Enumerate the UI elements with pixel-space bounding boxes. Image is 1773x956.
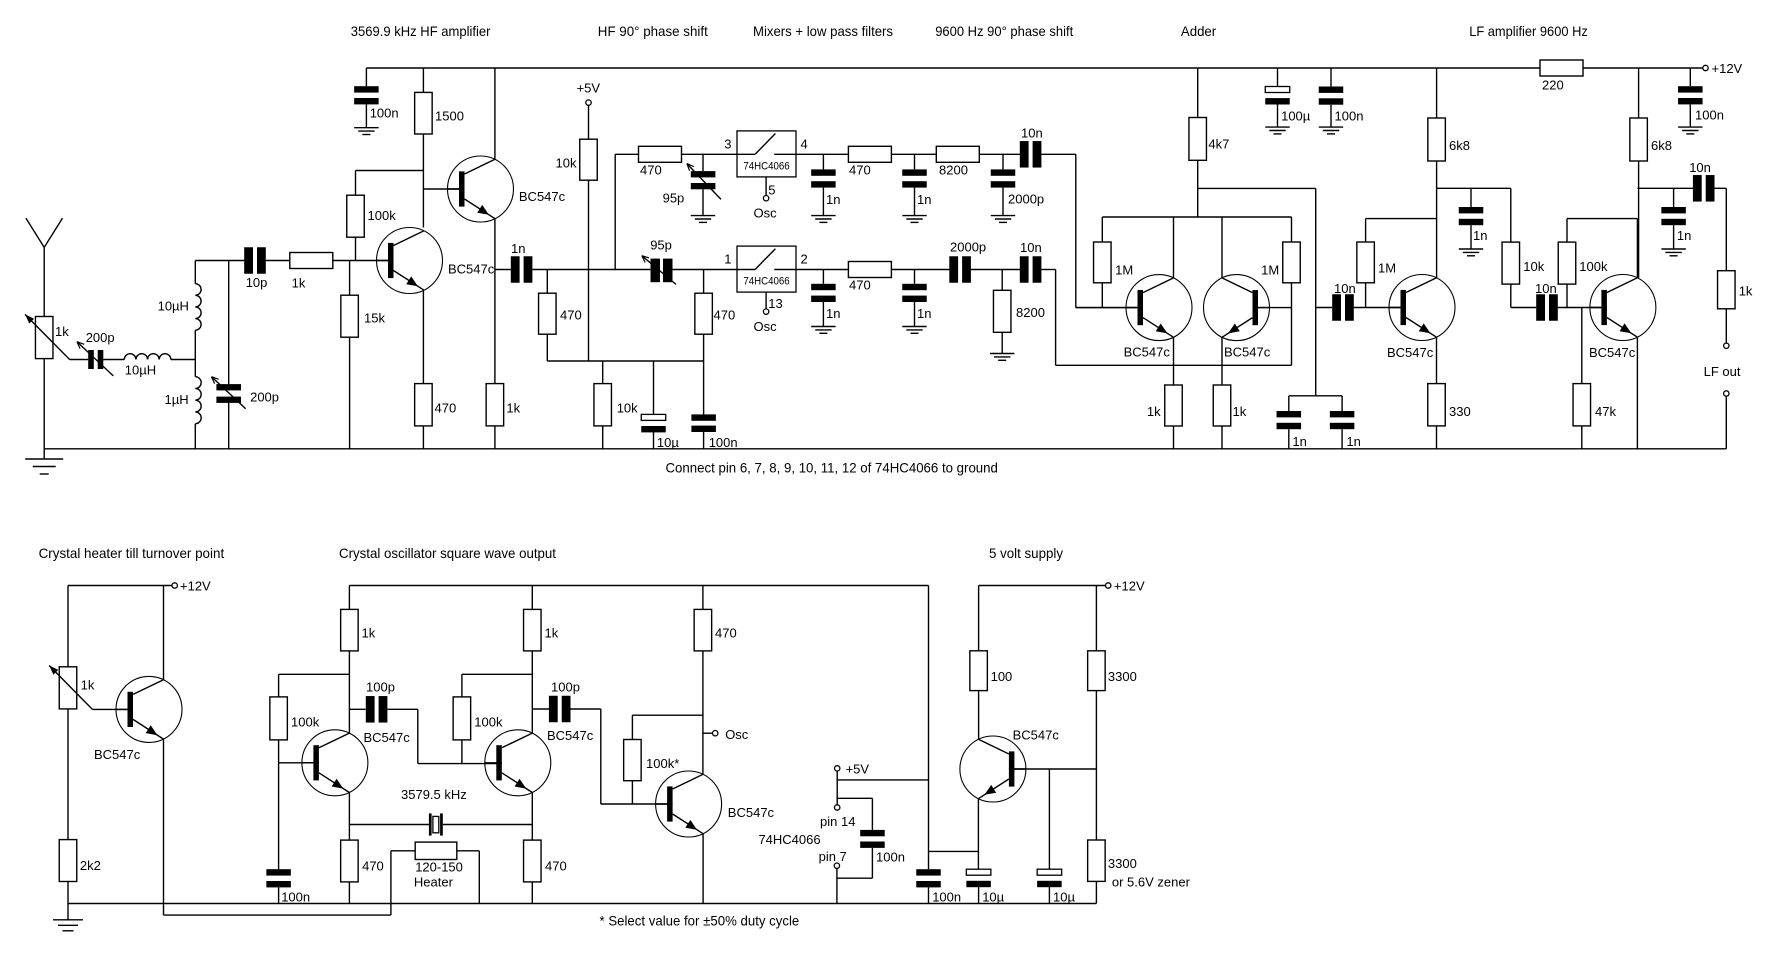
svg-text:1M: 1M	[1261, 263, 1279, 278]
svg-text:Connect pin 6, 7, 8, 9, 10, 11: Connect pin 6, 7, 8, 9, 10, 11, 12 of 74…	[666, 459, 998, 475]
svg-text:10µH: 10µH	[158, 298, 189, 313]
svg-text:1M: 1M	[1115, 263, 1133, 278]
svg-text:100k: 100k	[368, 208, 397, 223]
svg-text:6k8: 6k8	[1449, 138, 1470, 153]
svg-text:Osc: Osc	[754, 319, 778, 334]
svg-text:3300: 3300	[1108, 669, 1137, 684]
svg-text:Osc: Osc	[754, 205, 778, 220]
svg-text:Osc: Osc	[725, 727, 749, 742]
svg-text:Heater: Heater	[414, 875, 454, 890]
svg-text:470: 470	[714, 308, 736, 323]
svg-text:10n: 10n	[1020, 240, 1042, 255]
svg-text:3569.9 kHz HF amplifier: 3569.9 kHz HF amplifier	[351, 23, 491, 39]
svg-text:1k: 1k	[1233, 404, 1247, 419]
svg-text:470: 470	[435, 401, 457, 416]
svg-text:10k: 10k	[617, 401, 638, 416]
svg-text:1n: 1n	[826, 192, 840, 207]
svg-text:1n: 1n	[826, 306, 840, 321]
svg-text:BC547c: BC547c	[448, 262, 495, 277]
svg-text:10µ: 10µ	[982, 890, 1004, 905]
svg-text:220: 220	[1542, 78, 1564, 93]
svg-text:BC547c: BC547c	[1387, 345, 1434, 360]
svg-text:470: 470	[640, 163, 662, 178]
svg-text:100p: 100p	[551, 680, 580, 695]
svg-text:LF out: LF out	[1704, 364, 1741, 379]
svg-text:1µH: 1µH	[165, 392, 189, 407]
svg-text:330: 330	[1449, 404, 1471, 419]
svg-text:1k: 1k	[292, 276, 306, 291]
svg-text:1n: 1n	[1292, 434, 1306, 449]
svg-text:4k7: 4k7	[1208, 137, 1229, 152]
svg-text:pin 14: pin 14	[820, 814, 855, 829]
svg-text:200p: 200p	[86, 330, 115, 345]
svg-text:1k: 1k	[55, 324, 69, 339]
svg-text:100n: 100n	[1335, 109, 1364, 124]
svg-text:1500: 1500	[435, 109, 464, 124]
svg-text:1k: 1k	[362, 626, 376, 641]
svg-text:BC547c: BC547c	[364, 730, 411, 745]
svg-text:+5V: +5V	[577, 81, 601, 96]
svg-text:2000p: 2000p	[950, 240, 986, 255]
svg-text:1n: 1n	[917, 192, 931, 207]
svg-text:BC547c: BC547c	[1224, 345, 1271, 360]
svg-text:+12V: +12V	[1712, 61, 1743, 76]
svg-text:74HC4066: 74HC4066	[743, 161, 789, 173]
svg-text:1: 1	[724, 252, 731, 267]
svg-text:15k: 15k	[364, 311, 385, 326]
svg-text:470: 470	[849, 278, 871, 293]
svg-text:10p: 10p	[246, 275, 268, 290]
svg-text:100n: 100n	[876, 850, 905, 865]
svg-text:100µ: 100µ	[1281, 109, 1311, 124]
svg-text:1n: 1n	[1473, 228, 1487, 243]
svg-text:100n: 100n	[709, 435, 738, 450]
svg-text:1n: 1n	[1677, 228, 1691, 243]
svg-text:Adder: Adder	[1181, 23, 1217, 39]
svg-text:4: 4	[801, 137, 808, 152]
svg-text:10µ: 10µ	[1053, 890, 1075, 905]
svg-text:100p: 100p	[366, 680, 395, 695]
svg-text:470: 470	[715, 626, 737, 641]
svg-text:10µ: 10µ	[657, 435, 679, 450]
svg-text:95p: 95p	[650, 238, 672, 253]
svg-text:470: 470	[545, 859, 567, 874]
svg-text:Crystal oscillator square wave: Crystal oscillator square wave output	[339, 545, 556, 561]
svg-text:1n: 1n	[511, 241, 525, 256]
svg-text:10n: 10n	[1334, 281, 1356, 296]
svg-text:BC547c: BC547c	[1013, 728, 1060, 743]
svg-text:95p: 95p	[663, 190, 685, 205]
svg-text:470: 470	[849, 163, 871, 178]
svg-text:3579.5 kHz: 3579.5 kHz	[401, 787, 467, 802]
svg-text:+12V: +12V	[180, 579, 211, 594]
svg-text:10n: 10n	[1535, 281, 1557, 296]
svg-text:100k: 100k	[474, 715, 503, 730]
svg-text:100: 100	[991, 669, 1013, 684]
svg-text:470: 470	[362, 859, 384, 874]
svg-text:8200: 8200	[1016, 305, 1045, 320]
svg-text:Mixers + low pass filters: Mixers + low pass filters	[753, 23, 893, 39]
svg-text:47k: 47k	[1595, 404, 1616, 419]
svg-text:10µH: 10µH	[125, 363, 156, 378]
svg-text:BC547c: BC547c	[728, 805, 775, 820]
svg-text:BC547c: BC547c	[519, 189, 566, 204]
svg-text:BC547c: BC547c	[1589, 345, 1636, 360]
svg-text:pin 7: pin 7	[819, 849, 847, 864]
svg-text:1M: 1M	[1378, 261, 1396, 276]
svg-text:10k: 10k	[1523, 259, 1544, 274]
svg-text:8200: 8200	[939, 163, 968, 178]
svg-text:BC547c: BC547c	[94, 747, 141, 762]
svg-text:BC547c: BC547c	[1124, 345, 1171, 360]
svg-text:1k: 1k	[506, 401, 520, 416]
svg-text:100n: 100n	[1695, 108, 1724, 123]
svg-text:470: 470	[560, 308, 582, 323]
svg-text:100k: 100k	[1579, 259, 1608, 274]
svg-text:74HC4066: 74HC4066	[758, 832, 820, 847]
svg-text:74HC4066: 74HC4066	[743, 276, 789, 288]
svg-text:1k: 1k	[1147, 404, 1161, 419]
svg-text:or 5.6V zener: or 5.6V zener	[1112, 875, 1191, 890]
svg-text:* Select value for ±50% duty c: * Select value for ±50% duty cycle	[600, 913, 800, 929]
svg-text:10n: 10n	[1021, 126, 1043, 141]
svg-text:+12V: +12V	[1114, 579, 1145, 594]
svg-text:1k: 1k	[81, 678, 95, 693]
svg-text:100n: 100n	[370, 106, 399, 121]
svg-text:100n: 100n	[281, 890, 310, 905]
svg-text:1n: 1n	[917, 306, 931, 321]
svg-text:2k2: 2k2	[80, 858, 101, 873]
svg-text:LF amplifier 9600 Hz: LF amplifier 9600 Hz	[1469, 23, 1588, 39]
svg-text:10n: 10n	[1689, 160, 1711, 175]
svg-text:13: 13	[768, 296, 782, 311]
svg-text:100k: 100k	[291, 715, 320, 730]
svg-text:Crystal heater till turnover p: Crystal heater till turnover point	[39, 545, 225, 561]
svg-text:100n: 100n	[932, 890, 961, 905]
svg-text:1n: 1n	[1346, 434, 1360, 449]
svg-text:3300: 3300	[1108, 856, 1137, 871]
svg-text:5: 5	[768, 183, 775, 198]
svg-text:1k: 1k	[1739, 284, 1753, 299]
svg-text:BC547c: BC547c	[547, 728, 594, 743]
svg-text:HF 90° phase shift: HF 90° phase shift	[598, 23, 708, 39]
svg-text:120-150: 120-150	[415, 860, 463, 875]
svg-text:+5V: +5V	[846, 762, 870, 777]
svg-text:200p: 200p	[250, 390, 279, 405]
svg-text:9600 Hz 90° phase shift: 9600 Hz 90° phase shift	[935, 23, 1073, 39]
svg-text:100k*: 100k*	[646, 756, 679, 771]
svg-text:10k: 10k	[556, 156, 577, 171]
svg-text:1k: 1k	[545, 626, 559, 641]
svg-text:6k8: 6k8	[1651, 138, 1672, 153]
svg-text:2: 2	[801, 252, 808, 267]
svg-text:3: 3	[724, 137, 731, 152]
svg-text:2000p: 2000p	[1008, 192, 1044, 207]
svg-text:5 volt supply: 5 volt supply	[989, 545, 1063, 561]
